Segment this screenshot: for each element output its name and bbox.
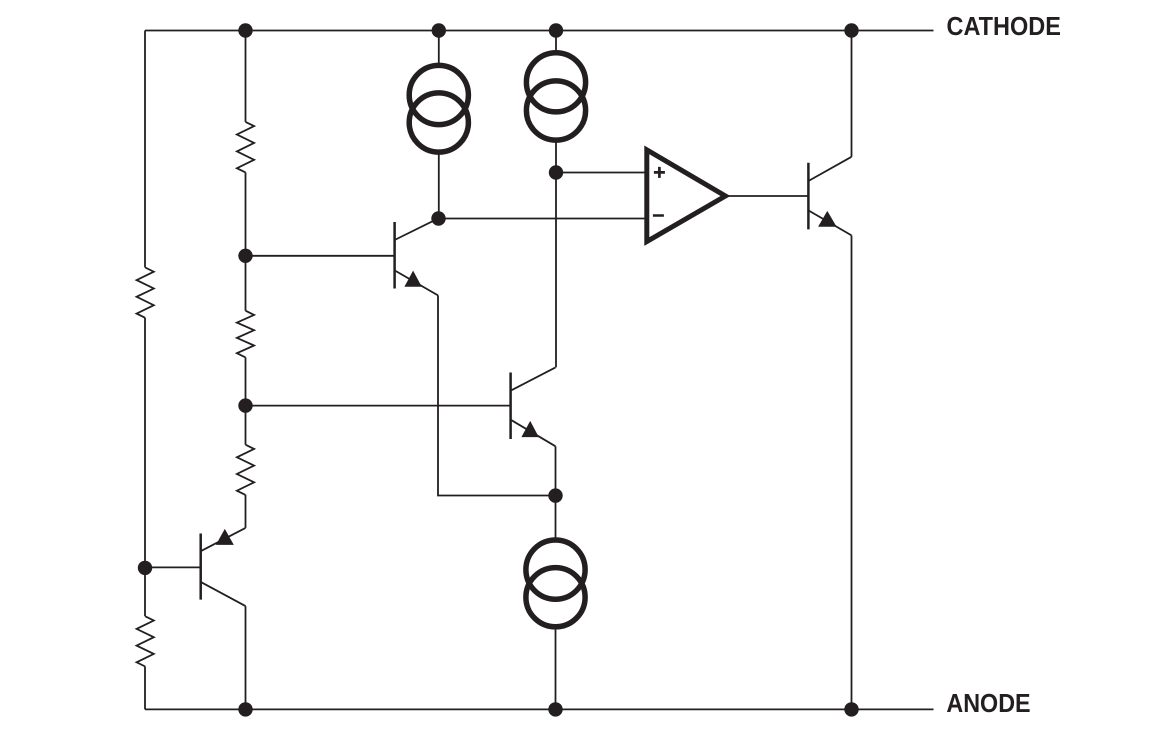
wire cathode rail (top) bbox=[145, 30, 934, 32]
svg-text:CATHODE: CATHODE bbox=[947, 13, 1061, 41]
node emitter tail junction bbox=[548, 488, 562, 502]
node cathode/Q4 junction bbox=[844, 23, 858, 37]
node I2 output (non-inverting input) bbox=[549, 165, 563, 179]
wire op-amp negative input bbox=[439, 218, 647, 220]
node anode/Q4 junction bbox=[844, 702, 858, 716]
resistor R4 bbox=[137, 268, 154, 318]
op-amp plus symbol bbox=[654, 167, 665, 178]
current source I2 bbox=[526, 53, 585, 140]
transistor Q1 bbox=[246, 218, 439, 295]
wire current source I1 feed (x=438.8) bbox=[438, 31, 440, 219]
svg-text:ANODE: ANODE bbox=[946, 690, 1030, 718]
wire anode rail (bottom) bbox=[145, 708, 934, 710]
wire op-amp output to Q4 base bbox=[725, 195, 808, 197]
wire left branch vertical (x=145) bbox=[144, 31, 146, 710]
transistor Q2 bbox=[145, 528, 246, 606]
wire Q1 emitter to tail node bbox=[438, 295, 556, 495]
node cathode/I2 junction bbox=[549, 23, 563, 37]
node cathode/I1 junction bbox=[432, 23, 446, 37]
node I1/Q1 collector (inverting input) bbox=[431, 211, 445, 225]
resistor R1 bbox=[237, 122, 254, 172]
transistor Q4 bbox=[808, 157, 851, 236]
resistor R2 bbox=[237, 311, 254, 358]
wire tail node to current source I3 bbox=[555, 496, 557, 540]
node Q2 base / left branch bbox=[138, 561, 152, 575]
current source I1 bbox=[409, 65, 468, 152]
transistor Q3 bbox=[246, 367, 556, 446]
wire op-amp positive input bbox=[556, 172, 647, 174]
wire Q3 emitter to tail node bbox=[555, 446, 557, 495]
wire current source I2 feed (x=556) bbox=[555, 31, 557, 368]
wire Q4 emitter to anode rail bbox=[851, 235, 853, 709]
wire divider branch vertical (x=245.5) bbox=[245, 31, 247, 710]
wire current source I3 to anode rail bbox=[555, 627, 557, 710]
node divider tap 1 (Q1 base) bbox=[238, 249, 252, 263]
op-amp minus symbol bbox=[653, 214, 664, 217]
resistor R5 bbox=[137, 616, 154, 666]
node cathode/divider junction bbox=[238, 23, 252, 37]
resistor R3 bbox=[237, 445, 254, 495]
op-amp U1 bbox=[647, 150, 726, 242]
node anode/Q2 junction bbox=[238, 702, 252, 716]
current source I3 bbox=[526, 540, 585, 627]
node divider tap 2 (Q3 base) bbox=[238, 398, 252, 412]
node anode/I3 junction bbox=[548, 702, 562, 716]
wire Q4 collector to cathode rail bbox=[851, 31, 853, 157]
